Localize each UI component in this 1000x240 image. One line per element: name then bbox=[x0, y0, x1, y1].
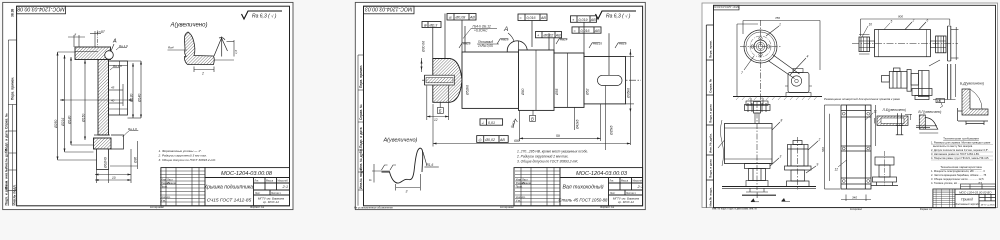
sheet 3 top-left designation box bbox=[714, 5, 740, 10]
svg-text:Ra 6,3 ( √ ): Ra 6,3 ( √ ) bbox=[606, 14, 631, 20]
svg-text:4. Тяговое усилие, кН ........: 4. Тяговое усилие, кН ..................… bbox=[931, 181, 983, 185]
svg-text:2:1: 2:1 bbox=[282, 184, 289, 189]
sheet 2 notes bbox=[516, 150, 588, 164]
svg-text:Справ. №: Справ. № bbox=[5, 113, 9, 129]
plate behind gearbox bbox=[947, 64, 949, 100]
svg-text:Ø0,08: Ø0,08 bbox=[455, 16, 466, 20]
svg-text:10: 10 bbox=[112, 176, 116, 180]
shaft segment 5 bbox=[584, 57, 626, 104]
svg-text:3. Общие допуски по ГОСТ 30893: 3. Общие допуски по ГОСТ 30893.2-mK. bbox=[517, 160, 579, 164]
svg-text:Пров.: Пров. bbox=[161, 185, 168, 189]
sheet 3 paper bbox=[702, 3, 998, 208]
svg-text:3. Натяжение ремня по ГОСТ 128: 3. Натяжение ремня по ГОСТ 1284.1-89. bbox=[931, 152, 980, 156]
svg-text:2. Радиусы скруглений 2 мм max: 2. Радиусы скруглений 2 мм max. bbox=[516, 155, 569, 159]
svg-text:Ø250: Ø250 bbox=[54, 120, 58, 129]
shaft between pulley and drum bbox=[754, 113, 756, 124]
svg-text:0,016: 0,016 bbox=[581, 29, 590, 33]
svg-text:4: 4 bbox=[807, 55, 809, 59]
svg-text:Подп. и дата: Подп. и дата bbox=[5, 185, 9, 206]
sheet 2 frame bbox=[364, 6, 643, 206]
svg-text:R1,6: R1,6 bbox=[427, 163, 434, 167]
svg-text:АВ: АВ bbox=[499, 138, 505, 142]
svg-text:5: 5 bbox=[891, 20, 893, 24]
svg-text:Ø52k6: Ø52k6 bbox=[466, 85, 470, 96]
svg-text:Ra0,4: Ra0,4 bbox=[560, 38, 568, 42]
svg-text:Ra 1,6: Ra 1,6 bbox=[128, 127, 137, 131]
svg-text:+0,3ОНС: +0,3ОНС bbox=[474, 29, 488, 33]
svg-text:2. Допуск соосности валов 0,2: 2. Допуск соосности валов 0,2 мм, переко… bbox=[931, 148, 989, 152]
svg-text:АВ: АВ bbox=[594, 29, 600, 33]
right dimension lines bbox=[111, 61, 142, 118]
svg-text:1. 270...285 НВ, кроме мест ук: 1. 270...285 НВ, кроме мест указанных ос… bbox=[517, 150, 588, 154]
svg-text:Справ. №: Справ. № bbox=[359, 104, 363, 120]
svg-text:В: В bbox=[531, 116, 534, 121]
svg-text:3. Общие допуски по ГОСТ 30893: 3. Общие допуски по ГОСТ 30893.2-mK. bbox=[159, 158, 217, 162]
svg-text:гр. МОС-12: гр. МОС-12 bbox=[263, 200, 279, 204]
ground line bbox=[733, 96, 822, 98]
sheet 2 leader notes top bbox=[473, 25, 494, 49]
svg-text:Изм. Лист: Изм. Лист bbox=[516, 178, 529, 182]
leader balloons bbox=[744, 26, 806, 75]
svg-text:2: 2 bbox=[912, 19, 915, 23]
thread profile bbox=[214, 37, 228, 57]
svg-text:Ra1,25: Ra1,25 bbox=[593, 42, 602, 46]
dims for side view bbox=[737, 21, 820, 97]
svg-text:Ra1,6: Ra1,6 bbox=[619, 42, 627, 46]
svg-text:Масса: Масса bbox=[621, 180, 629, 183]
svg-text:Иванов: Иванов bbox=[522, 181, 532, 185]
svg-text:Л-Б(увеличено): Л-Б(увеличено) bbox=[882, 108, 907, 112]
motor end view bbox=[788, 73, 809, 93]
svg-text:МОС-1204-03.00.08: МОС-1204-03.00.08 bbox=[221, 171, 273, 177]
hub bolts bbox=[759, 37, 762, 40]
svg-text:Перв. примен.: Перв. примен. bbox=[11, 77, 15, 100]
svg-text:Подп. и дата: Подп. и дата bbox=[5, 130, 9, 151]
sheet 2 top-left inverted designation box bbox=[364, 6, 415, 14]
svg-text:Н.контр.: Н.контр. bbox=[161, 195, 171, 199]
left bearing unit bbox=[859, 37, 870, 52]
svg-text:МГТУ гр.МОС: МГТУ гр.МОС bbox=[981, 204, 996, 206]
end plate bbox=[947, 26, 949, 61]
svg-text:Инв.№ подл.: Инв.№ подл. bbox=[359, 168, 363, 189]
svg-text:560: 560 bbox=[821, 147, 825, 152]
svg-text:Лист: Лист bbox=[610, 192, 616, 195]
svg-text:Ø30 h6: Ø30 h6 bbox=[422, 41, 426, 53]
svg-text:Копировал: Копировал bbox=[500, 205, 514, 209]
svg-text:Инв.№ подл.: Инв.№ подл. bbox=[709, 187, 713, 206]
svg-text:1×Ra 0,05: 1×Ra 0,05 bbox=[478, 44, 493, 48]
svg-text:Утв.: Утв. bbox=[161, 199, 166, 203]
svg-text:11: 11 bbox=[874, 110, 878, 114]
sheet 2 shaft centerline bbox=[422, 79, 641, 81]
svg-text:Ra0,8: Ra0,8 bbox=[463, 42, 471, 46]
svg-text:340: 340 bbox=[852, 196, 857, 200]
bottom dims bbox=[95, 149, 131, 183]
sheet 1 margin rotated labels bbox=[5, 9, 17, 206]
svg-text:А: А bbox=[112, 39, 117, 45]
svg-text:Сталь 45 ГОСТ 1050-88: Сталь 45 ГОСТ 1050-88 bbox=[559, 198, 609, 203]
svg-text:МОС-1204-03.00.03: МОС-1204-03.00.03 bbox=[365, 6, 412, 12]
anchor detail under ground bbox=[746, 98, 768, 106]
svg-text:Ø60: Ø60 bbox=[521, 88, 525, 96]
sheet 3 left margin strip bbox=[706, 25, 713, 208]
boss right step bbox=[111, 135, 124, 149]
svg-text:Вал тихоходный: Вал тихоходный bbox=[562, 184, 603, 191]
svg-text:В,Г(увеличено): В,Г(увеличено) bbox=[918, 110, 941, 114]
svg-text:Инв. № дубл.: Инв. № дубл. bbox=[359, 148, 363, 170]
svg-text:Масштаб: Масштаб bbox=[278, 180, 289, 183]
shaft segment 4 bbox=[554, 53, 584, 107]
svg-text:Листов 1: Листов 1 bbox=[271, 192, 281, 195]
svg-text:Ra4: Ra4 bbox=[168, 46, 174, 50]
svg-text:=: = bbox=[520, 16, 522, 20]
svg-text:Инв. № подл. Подп. и дата: Инв. № подл. Подп. и дата Взам. инв. № bbox=[712, 208, 758, 211]
svg-text:А(увеличено): А(увеличено) bbox=[170, 23, 208, 29]
svg-text:3: 3 bbox=[406, 190, 408, 194]
svg-text:Формат А1: Формат А1 bbox=[920, 208, 933, 211]
roughness marks above shaft bbox=[459, 39, 626, 48]
svg-text:Ø140: Ø140 bbox=[138, 94, 142, 103]
svg-text:выполнять по месту без зазоров: выполнять по месту без зазоров. bbox=[933, 144, 973, 148]
tolerance frames below bbox=[477, 119, 509, 143]
sheet 2 tolerance frames above shaft bbox=[422, 14, 601, 38]
svg-text:Ø130: Ø130 bbox=[130, 94, 134, 103]
left dimension lines bbox=[58, 52, 97, 160]
svg-text:МОС-1204-03.00.03: МОС-1204-03.00.03 bbox=[576, 171, 628, 177]
svg-text:МОС-1204-03.00.08: МОС-1204-03.00.08 bbox=[17, 6, 64, 12]
svg-text:Ø216: Ø216 bbox=[61, 118, 65, 127]
svg-text:Ra 1,6: Ra 1,6 bbox=[119, 44, 128, 48]
svg-text:2: 2 bbox=[818, 138, 821, 142]
sheet 3: drum assembly top view bbox=[852, 43, 958, 45]
sheet 3: motor front view bottom bbox=[785, 141, 812, 187]
svg-text:А(увеличено): А(увеличено) bbox=[383, 138, 418, 144]
sheet 3: frame plan view (ladder) bbox=[841, 105, 871, 189]
svg-text:Инв. № дубл.: Инв. № дубл. bbox=[709, 133, 713, 153]
svg-text:0,016: 0,016 bbox=[527, 16, 536, 20]
svg-text:2. Частота вращения барабана,: 2. Частота вращения барабана, об/мин ...… bbox=[931, 173, 987, 177]
frame rail bbox=[722, 186, 816, 188]
svg-text:Ø0,02: Ø0,02 bbox=[484, 138, 495, 142]
detail A drawing bbox=[184, 32, 214, 65]
pulley circles bbox=[744, 30, 777, 63]
top small dims bbox=[68, 31, 101, 47]
svg-text:1Б: 1Б bbox=[937, 99, 941, 103]
sheet 1 title block bbox=[161, 167, 290, 206]
sheet 2 roughness mark top right bbox=[596, 11, 637, 19]
svg-text:Перв. примен.: Перв. примен. bbox=[359, 65, 363, 88]
svg-text:1. Мощность электродвигателя,: 1. Мощность электродвигателя, кВт ......… bbox=[931, 169, 985, 173]
sheet 1 left margin strip bbox=[8, 40, 16, 206]
shaft left stub dims bbox=[422, 58, 449, 120]
svg-text:Не установленные обозначения: Не установленные обозначения bbox=[354, 206, 393, 210]
svg-text:38.38: 38.38 bbox=[11, 9, 15, 17]
svg-text:Подп. и дата: Подп. и дата bbox=[709, 104, 713, 123]
sheet 3 frame bbox=[714, 5, 996, 207]
shaft segment 1 (hatched barrel with keyway) bbox=[433, 59, 462, 103]
svg-text:Ø0,02: Ø0,02 bbox=[543, 34, 554, 38]
svg-text:Ø42k6: Ø42k6 bbox=[576, 119, 580, 130]
svg-text:900: 900 bbox=[898, 15, 903, 19]
svg-text:Привод: Привод bbox=[961, 197, 973, 201]
svg-text:2. Радиусы скруглений 3 мм max: 2. Радиусы скруглений 3 мм max. bbox=[158, 154, 208, 158]
wall hatched bbox=[98, 60, 109, 136]
horizontal dim line across wall bbox=[60, 99, 133, 101]
svg-text:Ra 6,3 ( √ ): Ra 6,3 ( √ ) bbox=[252, 14, 277, 20]
svg-text:Ø35k6: Ø35k6 bbox=[627, 88, 631, 99]
sheet 2 paper bbox=[355, 2, 645, 209]
svg-text:Техническая характеристика: Техническая характеристика bbox=[940, 165, 982, 169]
svg-text:Ø36: Ø36 bbox=[134, 157, 138, 164]
svg-text:Ø55: Ø55 bbox=[555, 88, 559, 96]
svg-text:1×45°: 1×45° bbox=[97, 30, 106, 34]
svg-text:Формат А3: Формат А3 bbox=[600, 205, 615, 209]
svg-text:СЧ15 ГОСТ 1412-85: СЧ15 ГОСТ 1412-85 bbox=[207, 198, 252, 204]
svg-text:Копировал: Копировал bbox=[850, 208, 863, 211]
svg-text:2:1: 2:1 bbox=[637, 184, 644, 189]
leaders left view bbox=[718, 122, 780, 166]
svg-text:Б: Б bbox=[439, 108, 442, 113]
bearing + support below drum bbox=[745, 164, 771, 181]
svg-text:Утв.: Утв. bbox=[516, 199, 521, 203]
svg-text:АВ: АВ bbox=[540, 16, 546, 20]
svg-text:Крышка подшипника: Крышка подшипника bbox=[204, 185, 253, 191]
svg-text:гр. МОС-12: гр. МОС-12 bbox=[618, 200, 634, 204]
svg-text:Подп. и дата: Подп. и дата bbox=[359, 127, 363, 148]
pulley edge-on at top bbox=[745, 102, 771, 114]
svg-text:Масса: Масса bbox=[266, 180, 274, 183]
svg-text:А: А bbox=[503, 26, 508, 33]
sheet 1 main view: bearing cover section bbox=[97, 32, 99, 51]
o-ring circle + A leader bbox=[105, 51, 114, 60]
svg-text:1: 1 bbox=[779, 23, 781, 27]
svg-text:59: 59 bbox=[556, 134, 560, 138]
right bearing unit bbox=[936, 36, 946, 53]
svg-text:МОС-1204-03.00.00 ВО: МОС-1204-03.00.00 ВО bbox=[959, 190, 992, 194]
svg-text:0,01: 0,01 bbox=[488, 121, 495, 125]
sheet 1 paper bbox=[3, 2, 293, 209]
right stem dim bbox=[110, 141, 138, 169]
svg-text:8: 8 bbox=[781, 119, 783, 123]
svg-text:7: 7 bbox=[741, 71, 743, 75]
right end dims bbox=[606, 49, 635, 150]
svg-text:Ø52: Ø52 bbox=[586, 88, 590, 96]
svg-text:780: 780 bbox=[775, 16, 780, 20]
svg-text:Лит.: Лит. bbox=[255, 180, 260, 183]
svg-text:1. Размеры для справок. Монтаж: 1. Размеры для справок. Монтаж привода к… bbox=[931, 141, 991, 145]
Ra flag below segment 3 bbox=[513, 119, 517, 128]
svg-text:Инв.№ подл.: Инв.№ подл. bbox=[13, 184, 17, 205]
svg-text:6: 6 bbox=[927, 19, 929, 23]
svg-text:45: 45 bbox=[111, 86, 115, 90]
drum rect bbox=[725, 124, 773, 164]
sheet 2 title block bbox=[514, 167, 643, 206]
sheet 2 left margin strip bbox=[358, 55, 364, 206]
extension lines up from steps to tolerance frames bbox=[433, 14, 609, 76]
sheet 1 roughness mark top right bbox=[242, 11, 283, 19]
svg-text:1,6: 1,6 bbox=[234, 49, 238, 54]
sheet 1 frame bbox=[17, 6, 290, 206]
belt lines bbox=[768, 61, 795, 79]
sheet 1 notes bbox=[158, 149, 217, 162]
sheet 3: small table above title block bbox=[961, 184, 996, 189]
keyway on segment 5 bbox=[598, 75, 623, 85]
svg-text:12: 12 bbox=[835, 168, 839, 172]
svg-text:Масштаб: Масштаб bbox=[633, 180, 644, 183]
sheet 3: drum front view bottom left bbox=[756, 102, 758, 190]
svg-text:4. Покрытие рамы: грунт ГФ-021: 4. Покрытие рамы: грунт ГФ-021, эмаль ПФ… bbox=[931, 156, 989, 160]
svg-text:Лит.: Лит. bbox=[610, 180, 615, 183]
keyway slot through stub bbox=[425, 75, 455, 85]
svg-text:=: = bbox=[574, 29, 576, 33]
svg-text:10: 10 bbox=[869, 23, 873, 27]
svg-text:АВ: АВ bbox=[469, 16, 475, 20]
svg-text:Изм. Лист: Изм. Лист bbox=[161, 178, 174, 182]
cavity internal dims bbox=[109, 84, 123, 106]
svg-text:Листов 1: Листов 1 bbox=[626, 192, 636, 195]
svg-text:12: 12 bbox=[434, 118, 438, 122]
svg-text:3. Общее передаточное число ..: 3. Общее передаточное число ............… bbox=[931, 177, 984, 181]
svg-text:Ø62H9: Ø62H9 bbox=[104, 157, 108, 169]
svg-text:Справ. №: Справ. № bbox=[709, 78, 713, 93]
svg-text:Инв.№ дубл.: Инв.№ дубл. bbox=[5, 148, 9, 169]
sheet 2 dimension arrowheads bbox=[421, 51, 632, 145]
svg-text:МОС-1204-03.00.00: МОС-1204-03.00.00 bbox=[713, 5, 739, 9]
datum flags below shaft bbox=[437, 103, 535, 122]
svg-text:2: 2 bbox=[201, 72, 204, 76]
svg-text:Б,Д(увеличено): Б,Д(увеличено) bbox=[960, 82, 984, 86]
svg-text:Перв. прим.: Перв. прим. bbox=[709, 40, 713, 58]
sheet 3: small flag box top right of details bbox=[936, 99, 945, 103]
svg-text:Пров.: Пров. bbox=[516, 185, 523, 189]
svg-text:40: 40 bbox=[111, 99, 115, 103]
svg-text:6: 6 bbox=[369, 179, 373, 181]
detail A bottom dim bbox=[194, 67, 214, 73]
bottom boss bbox=[94, 134, 110, 136]
svg-text:9: 9 bbox=[817, 163, 819, 167]
svg-text:Ø180: Ø180 bbox=[68, 116, 72, 125]
svg-text:Лист: Лист bbox=[255, 192, 261, 195]
svg-text:Иванов: Иванов bbox=[167, 181, 177, 185]
svg-text:Копировал: Копировал bbox=[150, 205, 164, 209]
sheet 3: motor-gearbox side view bbox=[882, 68, 933, 100]
svg-text:0,019: 0,019 bbox=[579, 18, 588, 22]
sheet 1 dimension arrowheads bbox=[57, 52, 143, 181]
svg-text:Ra0,8: Ra0,8 bbox=[501, 38, 509, 42]
shaft segment 2 bbox=[462, 52, 519, 108]
svg-text:Технические требования: Технические требования bbox=[943, 137, 979, 141]
svg-text:Н.контр.: Н.контр. bbox=[516, 195, 526, 199]
dimension lines below shaft bbox=[433, 104, 630, 147]
sheet 3: pedestal cross-section detail bbox=[871, 151, 898, 186]
flange hatched bbox=[75, 47, 111, 60]
svg-text:Ø35k6: Ø35k6 bbox=[610, 125, 614, 136]
sheet 3 title block bbox=[933, 189, 996, 208]
right cavity box bbox=[109, 61, 128, 115]
svg-text:АВ: АВ bbox=[590, 18, 596, 22]
svg-text:Ø150: Ø150 bbox=[82, 114, 86, 123]
svg-text:Размещение отверстий для крепл: Размещение отверстий для крепления приво… bbox=[824, 97, 900, 101]
svg-text:690: 690 bbox=[514, 139, 520, 143]
svg-text:Формат А3: Формат А3 bbox=[250, 205, 265, 209]
svg-text:Монтажный чертёж: Монтажный чертёж bbox=[954, 202, 980, 206]
shaft segment 3 bbox=[519, 50, 555, 110]
sheet 1 top-left inverted designation box bbox=[17, 6, 66, 14]
Ra flag near circle bbox=[116, 47, 127, 50]
svg-text:1. Формовочные уклоны — 1°.: 1. Формовочные уклоны — 1°. bbox=[159, 149, 203, 153]
svg-text:Ra 1,6: Ra 1,6 bbox=[113, 64, 122, 68]
svg-text:3: 3 bbox=[780, 155, 782, 159]
drum view dims bbox=[861, 19, 959, 60]
svg-text:Подп. и дата: Подп. и дата bbox=[709, 159, 713, 178]
motor pulley bbox=[791, 76, 801, 86]
